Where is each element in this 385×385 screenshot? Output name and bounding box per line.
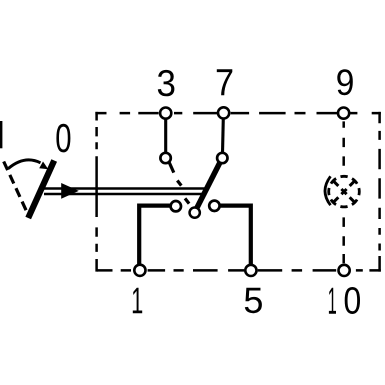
pin label 5 <box>245 288 262 313</box>
fixed contact circle under terminal 7 <box>217 153 227 163</box>
lamp X cross ticks <box>332 180 355 203</box>
moving contact arm (solid, position I) from contact 7 to pivot <box>196 162 220 210</box>
housing outline left edge (dashed) <box>95 112 98 272</box>
moving contact arm (dashed, position 0) from contact 3 to pivot <box>169 162 189 203</box>
terminal 5 <box>245 265 256 276</box>
lever solid (position I) <box>28 161 54 219</box>
position label 0 <box>56 124 70 153</box>
housing outline right edge (dashed) <box>378 112 381 272</box>
pin label 10 digit 0 <box>345 287 360 314</box>
lever dashed (position 0) <box>4 162 29 216</box>
bracket wire from contact to terminal 1 <box>139 206 170 265</box>
motion arrow arc <box>8 160 40 169</box>
housing outline top edge (dashed) <box>95 112 380 115</box>
pin label 9 <box>337 69 353 95</box>
terminal 10 <box>339 265 350 276</box>
dashed wire terminal 9 to lamp <box>342 121 345 165</box>
actuator shaft upper line <box>44 187 207 190</box>
pin label 10 digit 1 <box>329 288 336 314</box>
bracket wire from contact to terminal 5 <box>220 206 251 265</box>
pin label 1 <box>133 288 142 314</box>
terminal 1 <box>134 265 145 276</box>
left bridge contact circle <box>171 201 181 211</box>
wire stem terminal 7 to contact <box>221 118 225 154</box>
actuator shaft lower line <box>44 193 207 196</box>
pin label 7 <box>217 69 233 95</box>
pin label 3 <box>158 70 175 96</box>
terminal 7 <box>218 107 229 118</box>
fixed contact circle under terminal 3 <box>160 153 170 163</box>
terminal 3 <box>160 108 171 119</box>
terminal 9 <box>338 108 349 119</box>
right bridge contact circle <box>209 201 219 211</box>
position label I <box>0 121 2 148</box>
actuator shaft arrowhead <box>61 183 79 199</box>
wire stem terminal 3 to contact <box>164 118 167 154</box>
motion arrow head <box>39 162 48 170</box>
pivot contact circle <box>190 207 200 217</box>
housing outline bottom edge (dashed) <box>97 269 381 272</box>
lamp illumination arc <box>325 176 331 205</box>
lamp L (dashed circle) <box>329 176 360 207</box>
dashed wire lamp to terminal 10 <box>342 217 345 263</box>
